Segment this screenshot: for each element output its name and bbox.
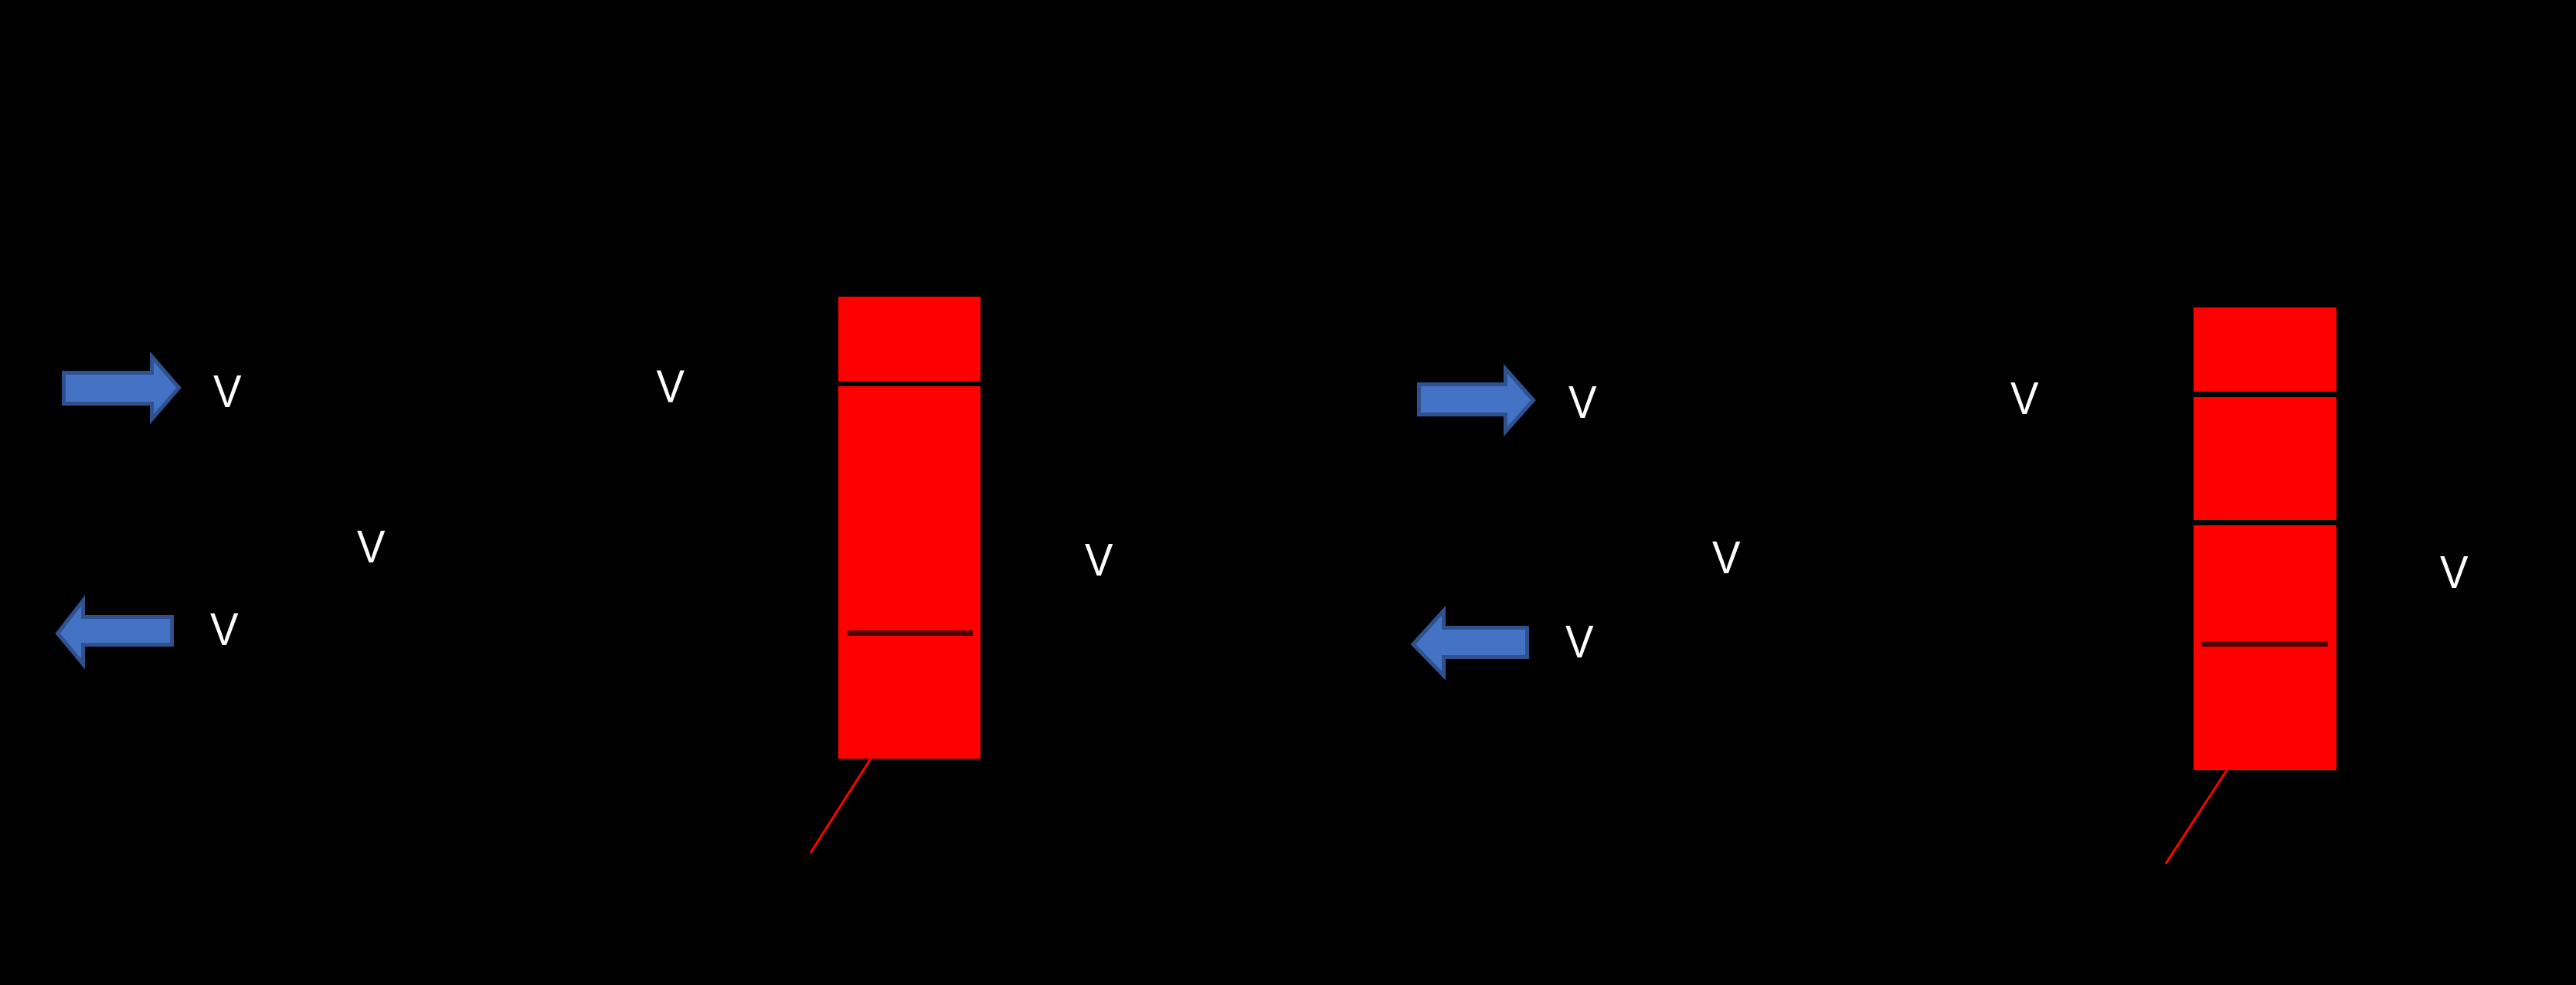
svg-text:V: V [1565,616,1594,667]
svg-text:V: V [657,361,685,413]
svg-text:V: V [357,521,386,572]
svg-text:V: V [1712,532,1741,583]
svg-text:V: V [2440,546,2469,598]
svg-text:V: V [2010,372,2039,424]
svg-text:V: V [213,365,242,417]
svg-text:V: V [1085,534,1113,586]
svg-text:V: V [210,603,239,655]
svg-text:V: V [1568,376,1597,428]
